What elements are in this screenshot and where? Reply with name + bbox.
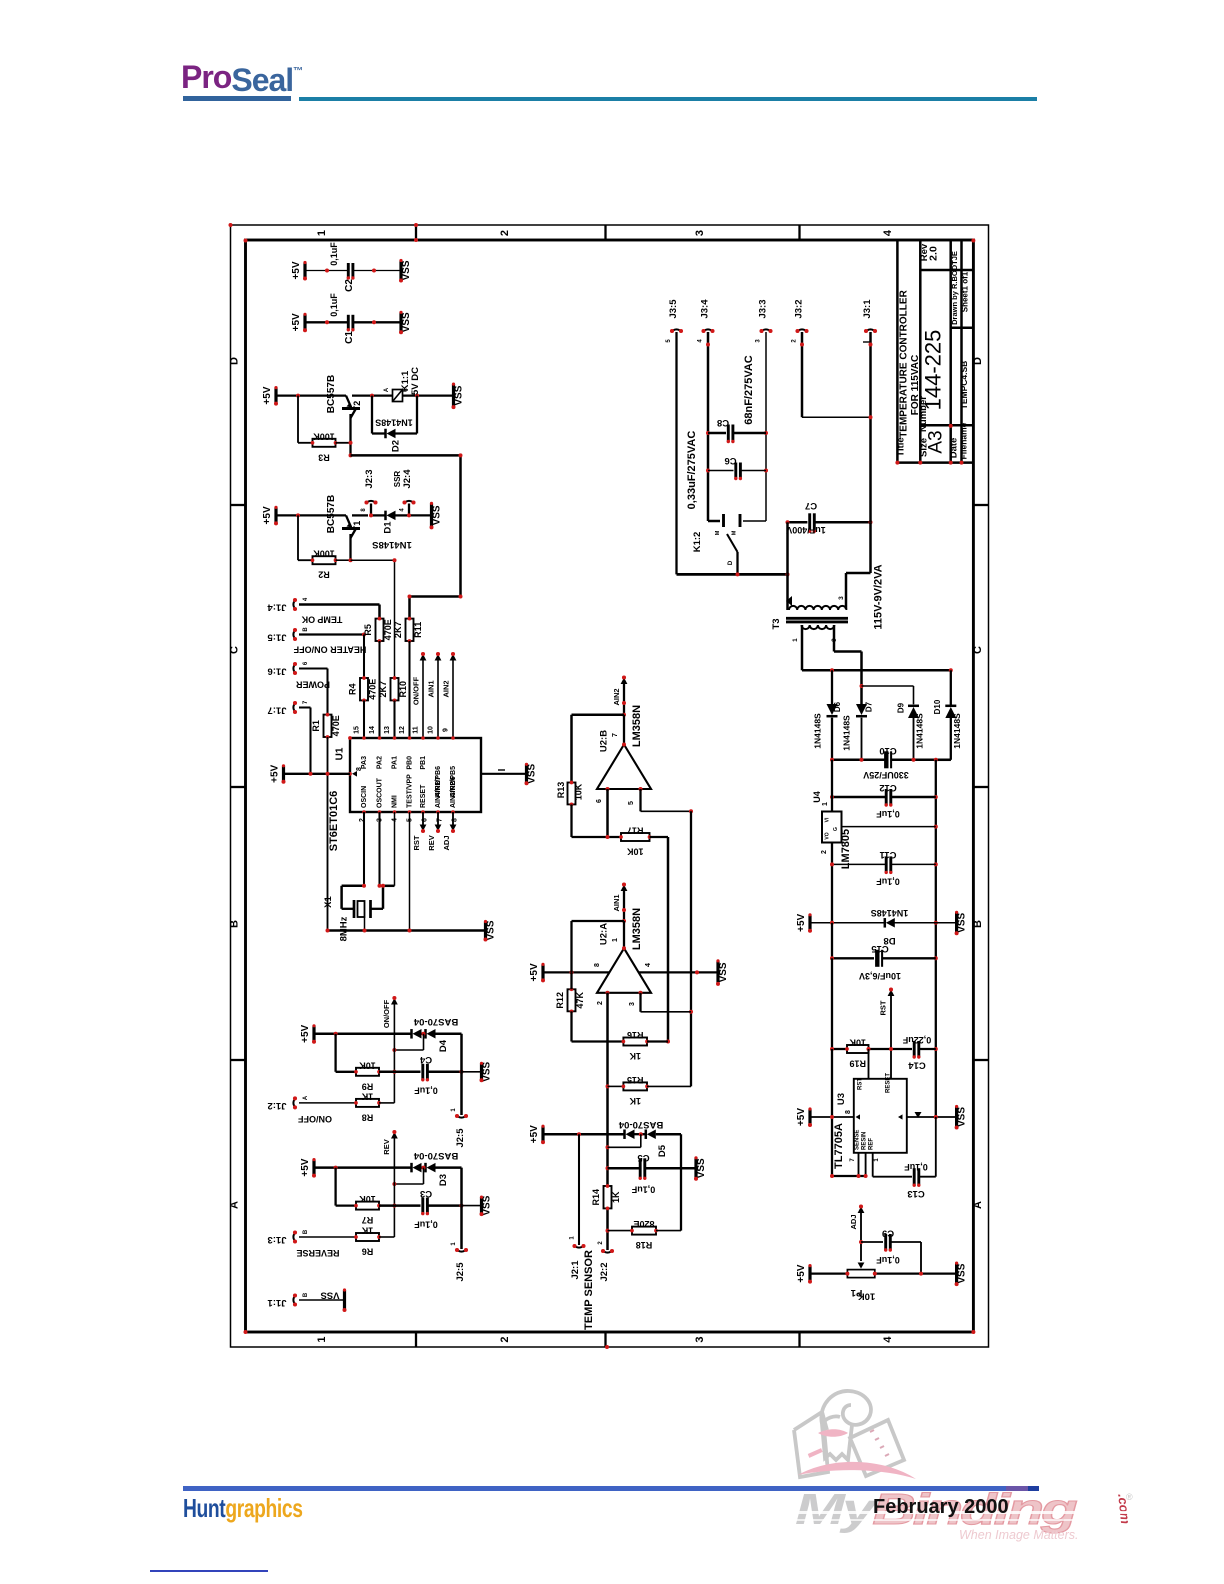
wire +5V to U3	[812, 1116, 854, 1118]
svg-text:1: 1	[451, 1108, 457, 1112]
diode D2 1N4148S flyback	[371, 396, 373, 434]
svg-text:13: 13	[384, 726, 391, 734]
svg-text:U1: U1	[335, 747, 346, 760]
node ADJ arrow down	[452, 812, 454, 825]
schematic sheet inner border	[246, 240, 974, 1332]
svg-text:0,1uF: 0,1uF	[329, 242, 339, 266]
white stripes through watermark text	[795, 1511, 1224, 1514]
wire T1 emitter rail	[278, 514, 347, 516]
svg-text:2: 2	[499, 1336, 511, 1342]
VSS (C3)	[462, 1205, 481, 1207]
svg-text:10uF/6,3V: 10uF/6,3V	[859, 971, 901, 981]
svg-text:+5V: +5V	[796, 1264, 807, 1282]
svg-text:PA1: PA1	[392, 756, 399, 769]
wire NMI stub	[394, 812, 396, 886]
svg-text:TEMP OK: TEMP OK	[301, 615, 342, 625]
connector J3:4	[704, 329, 713, 332]
resistor R5 470E	[363, 617, 393, 643]
svg-text:R7: R7	[362, 1215, 374, 1225]
svg-text:REVERSE: REVERSE	[296, 1248, 339, 1258]
op-amp U2:B LM358N	[623, 715, 625, 745]
svg-text:C: C	[972, 646, 984, 654]
resistor R16 1K	[622, 1030, 649, 1061]
svg-text:100K: 100K	[313, 431, 335, 441]
svg-text:ADJ: ADJ	[849, 1214, 858, 1229]
svg-text:VSS: VSS	[482, 1195, 493, 1215]
svg-text:7: 7	[850, 1158, 856, 1162]
capacitor C6 0,33uF	[708, 470, 734, 472]
svg-text:+5V: +5V	[291, 261, 302, 279]
footer rule	[183, 1486, 1038, 1491]
regulator U4 LM7805	[822, 812, 842, 843]
ProSeal logo	[181, 61, 302, 93]
capacitor C10 330uF/25V	[832, 759, 885, 762]
svg-text:4: 4	[698, 339, 704, 343]
wire U2:A inverting input	[606, 993, 609, 1250]
VSS (C1)	[399, 311, 412, 335]
wire sense/resin rail	[832, 1175, 866, 1177]
wire collector to R11 net	[351, 454, 461, 457]
svg-text:VSS: VSS	[957, 1263, 968, 1283]
svg-text:100K: 100K	[313, 549, 335, 559]
svg-text:VI: VI	[825, 817, 831, 822]
resistor R1 470E	[311, 713, 341, 739]
wire C1 row	[307, 321, 349, 323]
node AIN2 output arrow	[621, 678, 628, 685]
svg-text:0,1uF: 0,1uF	[876, 809, 900, 819]
wire R12 to R16	[570, 1011, 572, 1041]
svg-text:J1:5: J1:5	[267, 632, 287, 643]
svg-text:A3: A3	[926, 430, 947, 453]
svg-text:15: 15	[354, 726, 361, 734]
svg-text:0,33uF/275VAC: 0,33uF/275VAC	[686, 431, 698, 510]
svg-text:3: 3	[694, 1336, 706, 1342]
svg-text:R13: R13	[556, 782, 566, 799]
resistor R2 100K	[311, 549, 338, 580]
svg-text:C3: C3	[420, 1188, 432, 1199]
VSS (D8 row)	[955, 911, 968, 936]
svg-text:E: E	[403, 388, 409, 392]
wire relay rail	[352, 394, 393, 396]
connector J1:5 HEATER ON/OFF	[293, 630, 296, 639]
resistor R15 1K	[608, 1085, 624, 1087]
svg-text:7: 7	[612, 733, 619, 737]
svg-text:J2:4: J2:4	[402, 469, 413, 489]
diode D5 BAS70-04	[625, 1129, 635, 1139]
svg-text:D6: D6	[833, 701, 842, 712]
capacitor C12 0,1uF	[832, 796, 886, 799]
svg-text:AIN2: AIN2	[442, 680, 451, 697]
svg-text:C1: C1	[344, 331, 355, 344]
connector J1:6 POWER	[293, 664, 296, 673]
Huntgraphics	[183, 1495, 303, 1521]
svg-text:1N4148S: 1N4148S	[842, 715, 852, 751]
svg-text:AIN1: AIN1	[612, 894, 621, 911]
diode D3 BAS70-04	[412, 1163, 422, 1173]
svg-text:REF: REF	[869, 1138, 875, 1150]
svg-text:D: D	[229, 357, 241, 365]
svg-text:5: 5	[628, 801, 635, 805]
svg-text:+5V: +5V	[796, 913, 807, 931]
connector J2:4	[408, 504, 410, 516]
svg-text:3: 3	[756, 339, 762, 343]
node REV arrow down	[437, 812, 439, 825]
wire D4 channel to J2:5	[460, 1034, 463, 1115]
svg-text:+5V: +5V	[529, 1125, 540, 1143]
capacitor C2	[347, 263, 355, 280]
svg-text:0,1uF: 0,1uF	[414, 1086, 438, 1096]
resistor R11 2K7	[393, 617, 423, 643]
resistor R14 1K	[591, 1184, 621, 1210]
svg-text:D2: D2	[391, 440, 402, 452]
diode D1 1N4148S	[386, 511, 396, 521]
svg-text:10K: 10K	[359, 1060, 376, 1070]
svg-text:D: D	[972, 357, 984, 365]
capacitor C3	[421, 1198, 429, 1216]
svg-text:A: A	[384, 387, 390, 392]
svg-text:J1:3: J1:3	[267, 1234, 286, 1245]
svg-text:3: 3	[694, 230, 706, 236]
wire bridge + to U4	[831, 760, 833, 812]
connector J1:1	[293, 1296, 296, 1305]
svg-text:A: A	[303, 1095, 309, 1100]
svg-text:5: 5	[666, 339, 672, 343]
U1 right pin VSS	[481, 773, 525, 775]
VSS (J1:1)	[343, 1290, 346, 1310]
svg-text:1N4148S: 1N4148S	[915, 713, 925, 749]
svg-text:AIN1: AIN1	[427, 680, 436, 697]
svg-text:0,1uF: 0,1uF	[904, 1162, 928, 1172]
resistor R9 10K	[336, 1071, 356, 1073]
svg-text:U2:B: U2:B	[599, 730, 610, 752]
svg-text:8: 8	[361, 508, 367, 512]
svg-text:R5: R5	[363, 624, 373, 636]
wire R1 to VSS rail	[327, 737, 329, 931]
svg-text:PA2: PA2	[377, 756, 384, 769]
svg-text:Title: Title	[896, 437, 907, 456]
svg-text:2: 2	[499, 230, 511, 236]
svg-text:U4: U4	[812, 791, 822, 803]
+5V (sensor)	[529, 1125, 545, 1145]
wire T1 collector	[349, 534, 351, 560]
wire R2 branch	[297, 515, 299, 560]
VSS (P1)	[955, 1262, 968, 1287]
connector J1:2 ON/OFF	[293, 1098, 296, 1107]
svg-text:VSS: VSS	[432, 505, 443, 525]
svg-text:J1:6: J1:6	[267, 666, 286, 677]
svg-text:1: 1	[612, 938, 619, 942]
svg-text:5V DC: 5V DC	[410, 367, 421, 395]
MyBinding watermark text	[795, 1488, 1224, 1531]
svg-text:BC557B: BC557B	[326, 375, 337, 413]
wire pin6 stub	[868, 1049, 870, 1079]
wire D3 centre tap	[423, 1168, 425, 1184]
wire U2:A feedback	[572, 920, 625, 922]
svg-text:1N4148S: 1N4148S	[952, 713, 962, 749]
capacitor C15 10uF/6,3V	[831, 923, 833, 959]
svg-text:1N4148S: 1N4148S	[375, 418, 413, 428]
wire OSCIN stub	[363, 812, 365, 886]
svg-text:R4: R4	[348, 683, 358, 695]
capacitor C13 0,1uF	[873, 1176, 912, 1178]
svg-text:VSS: VSS	[486, 920, 497, 940]
capacitor C4	[421, 1064, 429, 1082]
wire R13 to R17 row	[570, 804, 572, 837]
capacitor C9 0,1uF	[861, 1241, 883, 1243]
svg-text:LM358N: LM358N	[631, 908, 643, 950]
svg-text:T2: T2	[352, 401, 362, 412]
svg-text:+5V: +5V	[300, 1158, 311, 1176]
svg-text:R11: R11	[413, 622, 423, 638]
wire U2:B inverting input	[606, 789, 609, 837]
svg-text:C15: C15	[871, 943, 889, 954]
+5V (D8 row)	[796, 913, 812, 933]
wire sensor top rail	[545, 1133, 625, 1136]
+5V (T2)	[262, 386, 278, 406]
svg-text:J1:7: J1:7	[267, 705, 286, 716]
svg-text:U2:A: U2:A	[599, 923, 610, 945]
svg-text:C12: C12	[879, 782, 896, 793]
resistor R4 470E	[348, 676, 378, 702]
svg-text:3: 3	[629, 1002, 636, 1006]
svg-text:R2: R2	[318, 570, 330, 580]
wire bridge top rail	[802, 669, 951, 672]
svg-text:LM7805: LM7805	[840, 829, 852, 869]
svg-text:8: 8	[356, 767, 363, 771]
svg-text:2: 2	[792, 339, 798, 343]
svg-text:+5V: +5V	[300, 1024, 311, 1042]
svg-text:A: A	[229, 1201, 241, 1209]
svg-text:1: 1	[316, 230, 328, 236]
svg-text:AIN3/PB6: AIN3/PB6	[450, 776, 457, 808]
+5V (C1)	[291, 313, 307, 333]
svg-text:SSR: SSR	[393, 471, 402, 488]
svg-text:C2: C2	[344, 279, 355, 292]
transistor T1 BC557B	[346, 515, 351, 527]
svg-text:2K7: 2K7	[378, 681, 388, 698]
svg-text:VSS: VSS	[482, 1061, 493, 1081]
svg-text:0,1uF: 0,1uF	[876, 1255, 900, 1265]
svg-text:1K: 1K	[629, 1096, 641, 1106]
svg-text:HEATER ON/OFF: HEATER ON/OFF	[293, 645, 366, 655]
svg-text:C4: C4	[419, 1054, 432, 1065]
svg-text:Drawn by R.BODTJE: Drawn by R.BODTJE	[950, 251, 959, 325]
svg-text:PB1: PB1	[420, 756, 427, 770]
svg-text:VSS: VSS	[696, 1158, 707, 1178]
svg-text:VO: VO	[825, 832, 831, 839]
svg-text:10K: 10K	[359, 1194, 376, 1204]
connector J3:3	[762, 329, 771, 332]
wire R11 to pin12	[408, 641, 410, 738]
svg-text:R18: R18	[636, 1240, 653, 1250]
svg-text:NMI: NMI	[392, 795, 399, 808]
svg-text:1: 1	[874, 1158, 880, 1162]
resistor R19 10K	[831, 958, 833, 1049]
diode D8 1N4148S	[812, 922, 885, 924]
node AIN1 output arrow	[621, 885, 628, 892]
diode D10 1N4148S	[950, 670, 952, 705]
svg-text:AIN2: AIN2	[612, 688, 621, 705]
capacitor C8 68nF/275VAC	[708, 432, 726, 435]
svg-text:VSS: VSS	[401, 260, 412, 280]
wire D5 centre tap	[640, 1134, 642, 1147]
node ON/OFF signal arrow	[391, 998, 398, 1005]
title block	[896, 240, 899, 463]
svg-text:1: 1	[570, 1236, 576, 1240]
svg-text:C6: C6	[724, 455, 736, 466]
resistor R3 100K	[311, 431, 338, 462]
svg-text:6: 6	[596, 799, 603, 803]
svg-text:330UF/25V: 330UF/25V	[863, 770, 909, 780]
relay coil K1:1	[393, 390, 403, 402]
svg-text:1N4148S: 1N4148S	[813, 713, 823, 749]
relay contact K1:2	[708, 520, 720, 523]
February 2000	[873, 1496, 1009, 1519]
svg-text:RESIN: RESIN	[862, 1132, 868, 1150]
svg-text:C: C	[229, 646, 241, 654]
svg-text:115V-9V/2VA: 115V-9V/2VA	[873, 564, 885, 629]
node RST arrow down	[422, 812, 424, 825]
svg-text:VSS: VSS	[527, 763, 538, 783]
svg-text:K1:2: K1:2	[692, 532, 703, 553]
+5V (P1)	[796, 1264, 812, 1284]
svg-text:B: B	[303, 1229, 309, 1234]
svg-text:B: B	[972, 920, 984, 928]
wire R10 to pin13	[393, 700, 395, 738]
svg-text:820E: 820E	[633, 1219, 654, 1229]
wire U3 gnd	[907, 1116, 955, 1118]
svg-text:G: G	[833, 827, 839, 831]
svg-text:4: 4	[303, 597, 309, 601]
svg-text:J2:2: J2:2	[599, 1262, 610, 1281]
svg-text:R15: R15	[627, 1075, 644, 1085]
+5V (T1)	[262, 506, 278, 526]
svg-text:R12: R12	[555, 992, 565, 1009]
capacitor C1	[347, 315, 355, 332]
wire U2:B non-inverting input	[639, 789, 641, 811]
diode D6 1N4148S	[831, 670, 833, 704]
svg-text:R16: R16	[627, 1030, 644, 1040]
MyBinding watermark graphic	[770, 1380, 1030, 1584]
svg-text:8: 8	[594, 963, 601, 967]
svg-text:D4: D4	[438, 1039, 449, 1052]
IC U1 ST6ET01C6	[350, 738, 481, 812]
svg-text:1K: 1K	[629, 1051, 641, 1061]
svg-text:C10: C10	[879, 745, 896, 756]
svg-text:AIN4/PB7: AIN4/PB7	[435, 776, 442, 808]
svg-text:U3: U3	[836, 1093, 847, 1105]
svg-text:1K: 1K	[361, 1091, 373, 1101]
svg-text:X1: X1	[323, 895, 334, 907]
svg-text:4: 4	[400, 508, 406, 512]
svg-text:1N4148S: 1N4148S	[372, 539, 412, 550]
wire U4 output	[831, 843, 833, 923]
connector J3:1	[866, 329, 875, 332]
wire U2:A non-inverting input	[639, 993, 641, 1012]
svg-text:10K: 10K	[858, 1291, 876, 1302]
svg-text:+5V: +5V	[529, 963, 540, 981]
svg-text:ON/OFF: ON/OFF	[412, 676, 421, 705]
svg-text:REV: REV	[382, 1139, 391, 1154]
svg-text:B: B	[303, 1292, 309, 1297]
svg-text:B: B	[303, 627, 309, 632]
resistor R12 47K	[555, 987, 585, 1013]
svg-text:RST: RST	[858, 1078, 864, 1090]
svg-text:TEMPERATURE CONTROLLER: TEMPERATURE CONTROLLER	[899, 289, 910, 437]
svg-text:+5V: +5V	[270, 764, 281, 782]
svg-text:D10: D10	[933, 699, 942, 714]
svg-text:T1: T1	[352, 521, 362, 532]
resistor R6 1K	[354, 1226, 381, 1257]
VSS (U1 rail)	[484, 920, 497, 942]
svg-text:47K: 47K	[575, 992, 585, 1009]
connector J2:3	[370, 504, 372, 516]
svg-text:4: 4	[882, 229, 894, 236]
svg-text:M: M	[715, 530, 721, 535]
svg-text:68nF/275VAC: 68nF/275VAC	[743, 355, 755, 425]
svg-text:C8: C8	[717, 417, 729, 428]
resistor R17 10K	[619, 826, 651, 857]
svg-text:10: 10	[428, 726, 435, 734]
svg-text:C11: C11	[879, 849, 897, 860]
connector J3:2	[798, 329, 807, 332]
wire D3 channel to J2:5	[460, 1168, 463, 1249]
svg-text:J3:2: J3:2	[794, 299, 805, 318]
svg-text:LM358N: LM358N	[631, 705, 643, 747]
resistor R10 2K7	[378, 676, 408, 702]
wire AC bottom rail	[677, 573, 788, 576]
svg-text:J3:3: J3:3	[758, 299, 769, 318]
svg-text:1: 1	[451, 1242, 457, 1246]
svg-text:J2:1: J2:1	[570, 1260, 581, 1280]
svg-text:4: 4	[645, 963, 652, 967]
connector J1:4 TEMP OK	[293, 600, 296, 609]
svg-text:8MHz: 8MHz	[339, 916, 350, 941]
svg-text:R10: R10	[398, 681, 408, 698]
svg-text:2: 2	[598, 1241, 604, 1245]
svg-text:OSCOUT: OSCOUT	[377, 777, 384, 808]
svg-text:R1: R1	[311, 720, 321, 732]
resistor R7 10K	[336, 1204, 356, 1206]
wire D4 centre tap	[423, 1034, 425, 1050]
svg-text:1: 1	[792, 638, 799, 642]
transistor T2 BC557B	[346, 396, 351, 407]
wire SSR rail	[352, 514, 368, 516]
svg-text:1: 1	[316, 1336, 328, 1342]
capacitor C14 0,22uF	[913, 1041, 921, 1059]
VSS (C2)	[399, 259, 412, 283]
diode D4 BAS70-04	[412, 1029, 422, 1039]
svg-text:RESET: RESET	[420, 784, 427, 808]
svg-text:0,1uF: 0,1uF	[631, 1185, 655, 1195]
resistor R13 10K	[568, 781, 576, 807]
svg-text:R9: R9	[362, 1081, 374, 1091]
svg-text:BAS70-04: BAS70-04	[618, 1119, 663, 1130]
svg-text:POWER: POWER	[296, 680, 331, 690]
svg-text:470E: 470E	[331, 715, 341, 736]
svg-text:B: B	[229, 920, 241, 928]
crystal X1 circuit	[342, 885, 364, 888]
svg-text:0,22uF: 0,22uF	[902, 1035, 931, 1045]
wire VSS rail vertical	[935, 760, 937, 1117]
wire U2:A power rails	[529, 963, 545, 983]
svg-text:ON/OFF: ON/OFF	[298, 1114, 332, 1124]
svg-text:1K: 1K	[361, 1226, 373, 1236]
transformer T3 115V-9V/2VA	[869, 522, 872, 573]
svg-text:12: 12	[399, 726, 406, 734]
svg-text:+5V: +5V	[262, 386, 273, 404]
svg-text:BC557B: BC557B	[326, 495, 337, 533]
